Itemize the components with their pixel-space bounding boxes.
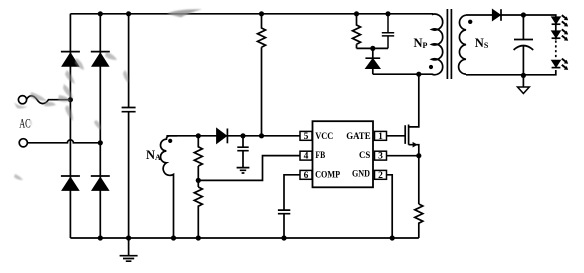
wire source to sense — [418, 156, 420, 204]
wire dashed LED string — [555, 41, 557, 59]
IC U1 controller box — [313, 121, 374, 187]
LED D6 — [552, 31, 561, 38]
ground vcc cap — [237, 168, 250, 173]
node NS dot — [468, 20, 472, 24]
ground output — [522, 75, 524, 87]
wire output top — [466, 15, 556, 40]
wire AC bottom with hop — [27, 140, 100, 143]
diode D1a bridge — [61, 51, 80, 53]
pin 5 box — [300, 131, 312, 140]
svg-text:GND: GND — [352, 170, 370, 180]
scan smudges bridge — [14, 52, 128, 180]
node NP dot — [429, 65, 433, 69]
svg-text:VCC: VCC — [315, 132, 333, 142]
text pin labels — [315, 132, 371, 181]
diode D1b bridge — [91, 51, 110, 53]
AC terminal bottom — [19, 139, 27, 147]
capacitor C4 output electrolytic — [514, 15, 533, 75]
wire GND pin net — [387, 175, 393, 238]
transistor Q1 MOSFET — [405, 74, 419, 156]
diode D2 clamp — [365, 48, 380, 58]
svg-text:6: 6 — [304, 171, 309, 181]
svg-text:GATE: GATE — [346, 132, 370, 142]
LED light arrows — [562, 15, 568, 70]
wire VCC row — [166, 135, 300, 137]
resistor R2 divider upper — [194, 136, 202, 187]
text pin numbers — [304, 132, 384, 181]
wire bottom ground rail — [70, 237, 418, 239]
diode D1c bridge — [61, 175, 80, 177]
diode D3 aux rectifier — [217, 128, 227, 143]
svg-text:CS: CS — [359, 151, 370, 161]
capacitor C3 comp — [278, 210, 290, 238]
svg-text:COMP: COMP — [315, 170, 340, 180]
pin 4 box — [300, 151, 312, 160]
node NA polarity dot — [168, 139, 172, 143]
wire fuse squiggle — [26, 96, 70, 104]
wire left bridge leg — [69, 14, 71, 238]
resistor R5 snubber — [353, 14, 361, 49]
wire FB net — [198, 156, 300, 181]
diode D4 output rectifier — [492, 9, 500, 20]
svg-text:5: 5 — [304, 132, 309, 142]
ground main — [120, 238, 138, 261]
capacitor C1 input filter — [122, 14, 136, 238]
svg-text:4: 4 — [304, 152, 309, 162]
resistor R1 startup — [258, 14, 266, 136]
svg-text:AC: AC — [19, 115, 31, 130]
scan smudge top rail — [167, 9, 202, 17]
diode D1d bridge — [91, 175, 110, 177]
wire second bridge leg — [99, 14, 101, 238]
pin 2 box — [375, 170, 387, 179]
pin 1 box — [375, 131, 387, 140]
wire top rail — [70, 13, 433, 15]
svg-text:FB: FB — [315, 151, 325, 161]
AC terminal top — [18, 96, 26, 104]
wire output bottom — [466, 70, 556, 75]
resistor R4 current sense — [415, 204, 423, 238]
svg-text:1: 1 — [378, 132, 383, 142]
pin 3 box — [375, 151, 387, 160]
wire snubber bottom — [357, 47, 389, 49]
pin 6 box — [300, 170, 312, 179]
inductor NA winding — [161, 136, 178, 238]
LED D5 — [552, 17, 561, 24]
inductor NP primary winding — [432, 14, 443, 75]
LED D7 — [552, 60, 561, 67]
wire CS net — [387, 155, 419, 157]
svg-text:3: 3 — [378, 152, 383, 162]
inductor NS secondary winding — [459, 15, 466, 74]
wire GATE net — [387, 135, 406, 137]
transformer core — [447, 9, 451, 79]
svg-text:2: 2 — [378, 171, 383, 181]
wire Np bottom — [373, 73, 433, 75]
capacitor C2 vcc — [237, 136, 248, 168]
resistor R3 divider lower — [194, 187, 202, 238]
capacitor C5 snubber — [382, 14, 394, 49]
wire COMP net — [284, 175, 300, 210]
